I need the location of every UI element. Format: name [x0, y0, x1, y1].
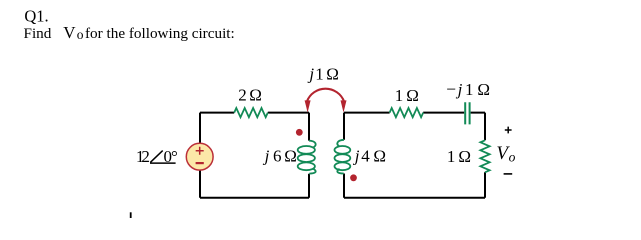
svg-text:Ω: Ω: [373, 146, 386, 165]
svg-text:Ω: Ω: [249, 85, 262, 104]
svg-text:1: 1: [465, 80, 474, 99]
svg-text:Q1.: Q1.: [24, 6, 48, 25]
wire left-loop right branch: [308, 113, 310, 198]
svg-text:Ω: Ω: [458, 147, 471, 166]
wire right-loop top: [344, 112, 485, 114]
svg-text:1: 1: [395, 86, 404, 105]
svg-text:2: 2: [238, 85, 247, 104]
resistor 1ohm top: [390, 108, 424, 117]
dot left (mutual): [296, 129, 303, 136]
arrowhead left: [305, 100, 311, 112]
wire left-loop bottom: [200, 197, 309, 199]
svg-text:−: −: [446, 79, 456, 99]
output minus sign: [504, 173, 513, 175]
inductor j6: [298, 141, 316, 174]
mutual coupling arc j1: [307, 89, 344, 102]
source 12 deg circle: [186, 143, 213, 170]
wire left-loop top: [200, 112, 309, 114]
svg-text:Ω: Ω: [326, 65, 339, 84]
svg-text:2: 2: [141, 147, 150, 166]
wire right-loop right branch: [484, 113, 486, 198]
dot right (mutual): [350, 174, 357, 181]
wire left branch: [199, 113, 201, 198]
svg-text:o: o: [509, 149, 516, 164]
svg-text:j: j: [353, 146, 360, 165]
svg-text:6: 6: [273, 146, 282, 165]
svg-text:o: o: [77, 27, 84, 42]
cursor tick bottom: [130, 212, 132, 218]
svg-text:j: j: [263, 146, 270, 165]
wire right-loop left branch: [343, 113, 345, 198]
svg-text:for the following circuit:: for the following circuit:: [85, 25, 235, 42]
svg-text:j: j: [307, 65, 314, 84]
source plus: [196, 147, 204, 155]
capacitor -j1: [465, 102, 469, 124]
svg-text:Ω: Ω: [406, 86, 419, 105]
svg-text:1: 1: [315, 65, 324, 84]
angle symbol: [150, 151, 176, 164]
output plus sign: [505, 127, 512, 134]
resistor 2ohm: [234, 108, 268, 117]
svg-text:Find: Find: [24, 25, 52, 42]
arrowhead right: [341, 100, 347, 112]
inductor j4: [335, 140, 351, 174]
svg-text:Ω: Ω: [284, 146, 297, 165]
svg-text:Ω: Ω: [477, 80, 490, 99]
svg-text:j: j: [456, 80, 463, 99]
resistor 1ohm vertical: [480, 140, 489, 172]
wire right-loop bottom: [344, 197, 485, 199]
svg-text:V: V: [63, 23, 76, 42]
svg-text:4: 4: [361, 146, 370, 165]
source minus: [196, 162, 204, 164]
svg-text:1: 1: [447, 147, 456, 166]
